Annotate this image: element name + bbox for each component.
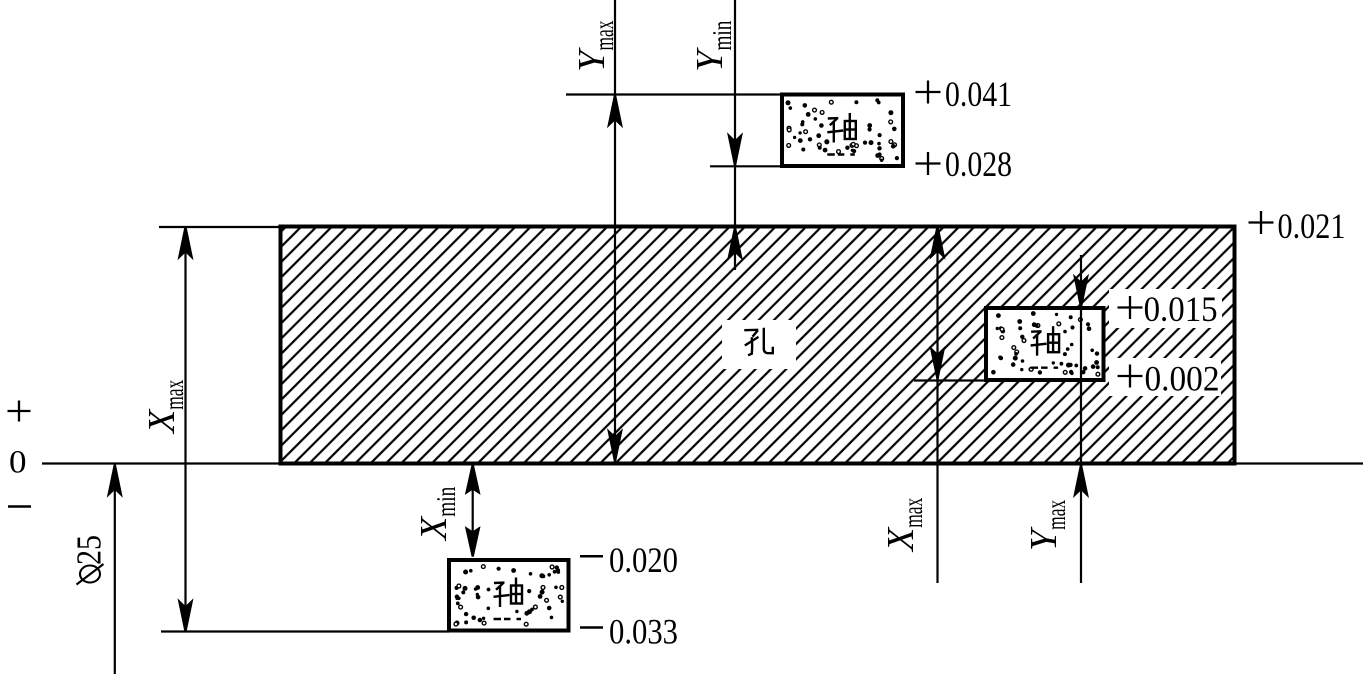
node dim-Ymax-top <box>609 0 621 462</box>
svg-text:0.028: 0.028 <box>945 144 1012 184</box>
node label +0.021 <box>1249 221 1274 223</box>
node shaft-box-bottom <box>449 560 569 631</box>
svg-text:0.021: 0.021 <box>1278 206 1346 246</box>
wire ext +0.002 <box>914 379 986 381</box>
node label +0.002 <box>1118 375 1143 377</box>
node label-phi25 <box>70 535 109 585</box>
node shaft-box-top <box>782 95 903 167</box>
svg-text:0: 0 <box>9 445 27 481</box>
node axis-plus <box>8 410 31 412</box>
node shaft-box-2 <box>986 308 1104 380</box>
node kong-label <box>744 328 773 356</box>
node dim-phi25 <box>109 465 121 674</box>
node dim-Xmin <box>467 465 479 557</box>
wire ext +0.028 <box>710 165 782 167</box>
node label +0.041 <box>916 91 941 93</box>
svg-text:25: 25 <box>70 535 109 565</box>
svg-text:0.002: 0.002 <box>1145 359 1220 399</box>
wire ext +0.021 left <box>159 226 280 228</box>
svg-text:0.033: 0.033 <box>609 612 678 652</box>
svg-text:0.041: 0.041 <box>945 74 1012 114</box>
svg-text:0.015: 0.015 <box>1144 289 1218 329</box>
svg-text:0.020: 0.020 <box>609 540 678 580</box>
wire zero-line <box>42 462 1363 464</box>
node hole-zone <box>281 227 1235 464</box>
node dim-Xmax-left <box>179 227 191 632</box>
node label -0.020 <box>580 555 603 558</box>
node dim-Xmax-right <box>931 227 943 584</box>
node label +0.015 <box>1118 306 1143 308</box>
node label -0.033 <box>580 626 603 629</box>
node dim-Ymax-right <box>1075 255 1087 583</box>
node axis-minus <box>8 505 31 508</box>
node dim-Ymin-top <box>729 0 741 270</box>
node label +0.028 <box>916 162 941 164</box>
wire ext -0.033 <box>161 630 449 632</box>
wire ext +0.041 <box>566 93 782 95</box>
